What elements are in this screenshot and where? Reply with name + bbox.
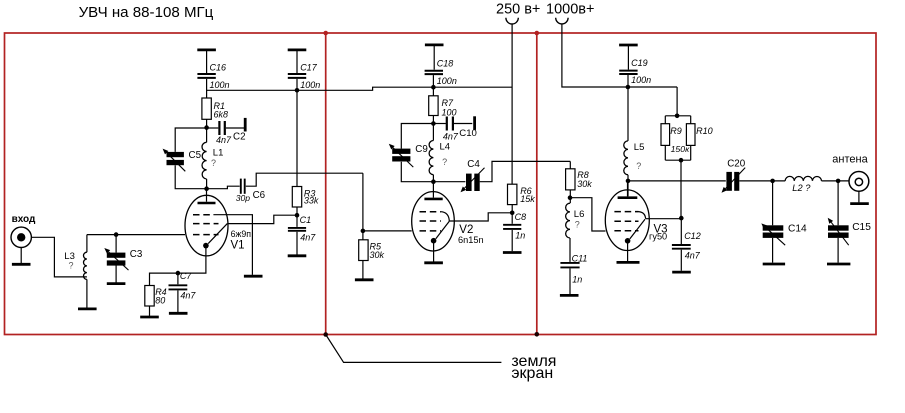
svg-text:C17: C17 — [300, 62, 318, 72]
svg-text:6n15n: 6n15n — [458, 235, 484, 245]
svg-text:4n7: 4n7 — [685, 250, 701, 260]
svg-text:экран: экран — [511, 365, 553, 382]
svg-text:C18: C18 — [437, 59, 454, 69]
svg-text:C5: C5 — [189, 150, 202, 161]
svg-text:УВЧ на 88-108 МГц: УВЧ на 88-108 МГц — [79, 4, 214, 21]
svg-text:?: ? — [575, 219, 580, 229]
svg-text:30k: 30k — [370, 250, 385, 260]
svg-text:1n: 1n — [515, 230, 525, 240]
svg-text:L1: L1 — [213, 147, 224, 158]
svg-text:C16: C16 — [210, 62, 227, 72]
svg-text:1000в+: 1000в+ — [546, 2, 594, 18]
svg-text:C4: C4 — [467, 159, 480, 170]
svg-text:C8: C8 — [515, 212, 527, 222]
svg-text:L4: L4 — [440, 142, 451, 153]
svg-text:100n: 100n — [437, 76, 457, 86]
svg-text:C1: C1 — [300, 215, 312, 225]
svg-text:R7: R7 — [442, 98, 454, 108]
svg-text:C20: C20 — [727, 159, 746, 170]
svg-text:L2 ?: L2 ? — [792, 183, 811, 193]
svg-text:?: ? — [69, 261, 74, 271]
svg-text:33k: 33k — [304, 196, 319, 206]
svg-text:C3: C3 — [130, 249, 143, 260]
svg-text:C7: C7 — [180, 271, 192, 281]
svg-text:100n: 100n — [300, 80, 320, 90]
svg-text:4n7: 4n7 — [443, 132, 459, 142]
svg-text:?: ? — [211, 158, 216, 168]
svg-text:вход: вход — [12, 214, 36, 225]
svg-text:C12: C12 — [684, 231, 701, 241]
svg-text:C11: C11 — [572, 253, 588, 263]
svg-text:30p: 30p — [236, 193, 251, 203]
svg-text:C19: C19 — [631, 58, 648, 68]
svg-text:гу50: гу50 — [649, 232, 667, 242]
svg-text:R10: R10 — [696, 126, 713, 136]
svg-text:C6: C6 — [253, 190, 266, 201]
svg-text:4n7: 4n7 — [216, 135, 232, 145]
svg-text:1n: 1n — [572, 275, 582, 285]
svg-text:150к: 150к — [671, 144, 690, 154]
svg-text:L5: L5 — [634, 142, 645, 153]
svg-text:100: 100 — [442, 108, 457, 118]
svg-text:4n7: 4n7 — [300, 233, 316, 243]
svg-text:6ж9п: 6ж9п — [231, 229, 252, 239]
svg-text:4n7: 4n7 — [180, 291, 196, 301]
svg-text:6k8: 6k8 — [214, 109, 229, 119]
svg-text:100n: 100n — [631, 75, 651, 85]
svg-text:C15: C15 — [852, 222, 871, 233]
svg-text:?: ? — [442, 157, 447, 167]
svg-text:250 в+: 250 в+ — [496, 2, 540, 18]
svg-text:антена: антена — [832, 153, 868, 165]
svg-text:30k: 30k — [577, 179, 592, 189]
svg-text:15k: 15k — [520, 194, 535, 204]
svg-text:R9: R9 — [670, 126, 682, 136]
svg-text:C10: C10 — [459, 128, 477, 139]
svg-text:C9: C9 — [415, 144, 428, 155]
svg-text:V1: V1 — [231, 240, 245, 252]
svg-text:C2: C2 — [233, 131, 246, 142]
svg-text:L6: L6 — [574, 209, 585, 220]
svg-text:80: 80 — [155, 295, 165, 305]
svg-text:100n: 100n — [210, 80, 230, 90]
svg-text:?: ? — [636, 161, 641, 171]
svg-text:C14: C14 — [788, 223, 807, 234]
